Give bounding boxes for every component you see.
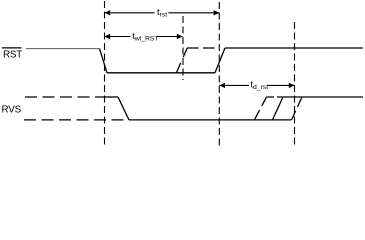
timing arrow t_d_rst line right segment xyxy=(268,84,295,86)
svg-text:td_rst: td_rst xyxy=(250,80,268,92)
svg-text:RST: RST xyxy=(3,50,22,61)
RST latest rising edge (solid) xyxy=(215,48,225,73)
RVS dashed high segment (rise window) xyxy=(267,96,284,98)
timing arrow t_rst line right segment xyxy=(168,12,219,14)
RST dashed high segment (rise window) xyxy=(187,47,215,49)
RST low segment xyxy=(107,72,215,74)
svg-text:trst: trst xyxy=(157,7,167,18)
RVS latest rising edge (dashed, crosses V4) xyxy=(292,97,303,120)
RVS earliest rising edge (dashed) xyxy=(254,97,266,120)
RVS mid rising edge (solid) xyxy=(273,97,284,120)
t_d_rst left arrowhead xyxy=(219,83,225,88)
RVS solid high segment after V1 xyxy=(105,96,119,98)
timing arrow t_d_rst line left segment xyxy=(219,84,249,86)
RST label overline xyxy=(2,47,22,49)
RVS dashed low segment (unknown state) xyxy=(24,119,129,121)
RST falling edge xyxy=(100,49,108,73)
RVS falling edge xyxy=(118,97,129,120)
RVS low segment xyxy=(129,119,292,121)
t_wl_RST left arrowhead xyxy=(105,34,111,39)
t_wl_RST right arrowhead xyxy=(177,34,183,39)
timing arrow t_rst line left segment xyxy=(105,12,155,14)
vertical dashed reference line V1 (RST falling edge) xyxy=(104,1,106,146)
vertical dashed reference line V3 (latest RST rise) xyxy=(218,2,220,146)
vertical dashed reference line V4 (RVS high deadline) xyxy=(294,22,296,146)
RST waveform high segment after rising edge xyxy=(225,47,363,49)
t_rst left arrowhead xyxy=(105,10,111,15)
svg-text:twl_RST: twl_RST xyxy=(132,31,158,43)
t_d_rst right arrowhead xyxy=(289,83,295,88)
timing arrow t_wl_RST line right segment xyxy=(157,36,183,38)
RVS dashed high segment (unknown state) xyxy=(25,96,105,98)
svg-text:RVS: RVS xyxy=(2,104,22,115)
RST waveform high segment before falling edge xyxy=(26,48,100,50)
t_rst right arrowhead xyxy=(214,10,220,15)
timing arrow t_wl_RST line left segment xyxy=(105,36,131,38)
vertical dashed reference line V2 (earliest RST rise tick) xyxy=(182,16,184,80)
RVS high segment to right edge xyxy=(283,96,363,98)
RST earliest rising edge (dashed) xyxy=(176,48,187,73)
